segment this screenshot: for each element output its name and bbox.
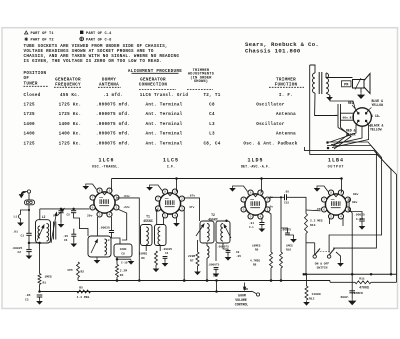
- svg-text:500M: 500M: [238, 294, 246, 298]
- box bottom node: [116, 257, 118, 259]
- svg-text:R12: R12: [309, 298, 315, 301]
- svg-text:4.7MEG: 4.7MEG: [250, 260, 260, 263]
- svg-text:R10: R10: [310, 224, 316, 227]
- svg-text:1725 Kc.: 1725 Kc.: [59, 112, 82, 117]
- svg-text:1725 Kc.: 1725 Kc.: [59, 141, 82, 146]
- wire T2 right box bottom: [215, 243, 217, 261]
- T2 trimmer arrows: [196, 224, 204, 236]
- R6 resistor: [155, 251, 158, 265]
- tube socket 1LC5: [159, 193, 180, 214]
- svg-text:15MEG: 15MEG: [139, 253, 148, 256]
- socket leads to junction: [330, 125, 356, 142]
- svg-text:CONNECTION: CONNECTION: [139, 82, 168, 87]
- antenna terminal: [27, 190, 30, 193]
- svg-text:DET.-AVC.-A.F.: DET.-AVC.-A.F.: [241, 165, 270, 169]
- 90v.B box: [341, 113, 354, 120]
- svg-text:C8, C4: C8, C4: [203, 141, 220, 146]
- C-12 cap on pin4: [261, 218, 263, 223]
- svg-text:1: 1: [174, 190, 176, 194]
- svg-text:3: 3: [181, 207, 183, 211]
- tube grid ground: [317, 186, 328, 192]
- grid line: [40, 208, 90, 210]
- svg-text:455KC: 455KC: [143, 219, 153, 223]
- svg-text:FUNCTION: FUNCTION: [275, 82, 298, 87]
- wire bundle w4: [310, 155, 397, 283]
- svg-text:1725: 1725: [24, 112, 36, 117]
- R1 resistor: [39, 243, 41, 274]
- 1LC5 pin4 ground: [176, 217, 178, 222]
- transformer left bottom lead: [315, 93, 337, 116]
- pin3 wire down: [351, 211, 353, 274]
- svg-text:10MEG: 10MEG: [252, 245, 261, 248]
- svg-text:L2: L2: [42, 215, 46, 219]
- svg-text:2.2M: 2.2M: [120, 270, 127, 273]
- svg-text:R1: R1: [43, 282, 47, 285]
- svg-text:2: 2: [266, 198, 268, 202]
- switch to ground: [333, 248, 340, 261]
- svg-text:7: 7: [92, 196, 94, 200]
- C3 capacitor: [38, 290, 41, 293]
- wire down from jack: [28, 205, 30, 233]
- T2 winding boxes: [200, 221, 214, 243]
- svg-text:Antenna: Antenna: [276, 132, 296, 137]
- svg-text:90v: 90v: [352, 201, 358, 204]
- svg-text:5: 5: [164, 214, 166, 218]
- svg-text:6: 6: [323, 208, 325, 212]
- svg-text:R8: R8: [253, 264, 257, 267]
- svg-text:Oscillator: Oscillator: [256, 103, 285, 108]
- svg-text:Chassis 101.800: Chassis 101.800: [245, 47, 301, 54]
- svg-text:2: 2: [181, 197, 183, 201]
- tube socket 1LC6: [94, 192, 115, 213]
- legend symbol square: part of C-4: [80, 31, 83, 34]
- .05MFD 600V cap: [351, 274, 353, 292]
- transformer right bottom ground: [326, 93, 330, 95]
- svg-text:Ant. Terminal: Ant. Terminal: [145, 112, 182, 117]
- svg-text:C4: C4: [53, 215, 57, 218]
- svg-text:4: 4: [260, 215, 262, 219]
- svg-text:160Ω: 160Ω: [120, 248, 127, 251]
- svg-text:.000075 mfd.: .000075 mfd.: [96, 132, 130, 137]
- svg-text:4: 4: [174, 214, 176, 218]
- svg-text:80v: 80v: [353, 193, 359, 196]
- svg-text:L3: L3: [209, 132, 215, 137]
- svg-text:.01: .01: [249, 222, 254, 225]
- svg-text:TUNER: TUNER: [24, 81, 38, 86]
- resistor R2: [96, 215, 98, 217]
- svg-text:C4: C4: [165, 252, 169, 255]
- svg-text:1MEG: 1MEG: [45, 276, 52, 279]
- svg-text:OSC.-TRANSL.: OSC.-TRANSL.: [92, 165, 120, 169]
- svg-text:.000075: .000075: [208, 264, 220, 267]
- svg-text:4: 4: [109, 213, 111, 217]
- svg-text:6: 6: [92, 206, 94, 210]
- svg-text:.05MFD: .05MFD: [352, 292, 363, 295]
- svg-text:Oscillator: Oscillator: [256, 122, 285, 127]
- wire bundle w1: [327, 142, 377, 248]
- svg-text:1LB4: 1LB4: [328, 158, 344, 164]
- .05 coupling cap line: [268, 197, 284, 198]
- svg-text:YELLOW: YELLOW: [370, 128, 382, 132]
- pin5 wire into L3: [96, 217, 98, 236]
- svg-text:T1: T1: [146, 215, 150, 219]
- svg-text:1725: 1725: [24, 103, 36, 108]
- svg-text:1LD5: 1LD5: [247, 158, 263, 164]
- svg-text:IS GIVEN, THE VOLTAGE IS ZERO: IS GIVEN, THE VOLTAGE IS ZERO OR TOO LOW…: [24, 59, 163, 64]
- svg-text:FREQUENCY: FREQUENCY: [55, 82, 81, 87]
- svg-text:PART OF C-8: PART OF C-8: [86, 39, 112, 43]
- R5 resistor on bus B: [77, 290, 91, 293]
- svg-text:.00025: .00025: [162, 248, 172, 251]
- T1 bottom leads: [145, 246, 147, 252]
- svg-text:C8: C8: [121, 253, 125, 256]
- svg-text:1LC5: 1LC5: [163, 158, 179, 164]
- speaker: [353, 80, 365, 89]
- svg-text:T2: T2: [211, 213, 215, 217]
- svg-text:1LC6 Transl. Grid: 1LC6 Transl. Grid: [140, 93, 189, 98]
- svg-text:4700Ω: 4700Ω: [359, 286, 369, 290]
- svg-text:YELLOW: YELLOW: [372, 103, 384, 107]
- transformer right top lead to speaker: [326, 73, 353, 78]
- capacitor C6: [73, 229, 75, 234]
- svg-text:.000075 mfd.: .000075 mfd.: [96, 122, 130, 127]
- riser 1LC5 pin1: [176, 179, 178, 192]
- L3 oscillator coil box: [88, 236, 111, 257]
- svg-text:Ant. Terminal: Ant. Terminal: [145, 141, 182, 146]
- svg-text:R6: R6: [141, 257, 145, 260]
- R12 1400 ohm: [306, 274, 308, 286]
- svg-text:.05: .05: [284, 191, 289, 194]
- svg-text:C6: C6: [64, 239, 68, 242]
- power cord pair: [337, 104, 339, 128]
- svg-text:C3: C3: [25, 299, 29, 302]
- svg-text:A 1A-: A 1A-: [371, 114, 381, 118]
- ground under L3: [96, 257, 98, 259]
- volume control wiper: [244, 283, 246, 291]
- 1LC5 pin5 wire: [163, 217, 165, 225]
- svg-text:PM: PM: [344, 84, 348, 88]
- svg-text:6v: 6v: [270, 206, 274, 209]
- svg-text:.05: .05: [63, 235, 68, 238]
- legend symbol circle-plus: part of C-8: [80, 37, 84, 41]
- svg-text:1725: 1725: [24, 141, 36, 146]
- svg-text:Closed: Closed: [24, 93, 41, 98]
- svg-text:ON & OFF: ON & OFF: [315, 263, 330, 266]
- svg-text:R10: R10: [286, 249, 291, 252]
- svg-text:4: 4: [340, 215, 342, 219]
- svg-text:Antenna: Antenna: [276, 112, 296, 117]
- svg-text:1400 Kc.: 1400 Kc.: [59, 132, 82, 137]
- tube grid ground: [233, 186, 248, 192]
- svg-text:8: 8: [250, 191, 252, 195]
- legend symbol star: part of T2: [24, 37, 28, 41]
- svg-text:.00025: .00025: [99, 227, 110, 230]
- svg-text:1400 Kc.: 1400 Kc.: [59, 122, 82, 127]
- pot terminal circle: [253, 292, 257, 294]
- svg-text:47v: 47v: [189, 206, 195, 209]
- svg-text:C8: C8: [209, 103, 215, 108]
- capacitor C1: [26, 232, 31, 234]
- 1LC5 pin3 long wire to bus: [183, 210, 185, 281]
- on-off switch: [313, 255, 316, 258]
- resistor R4: [116, 259, 118, 264]
- svg-text:.000075 mfd.: .000075 mfd.: [96, 103, 130, 108]
- svg-text:.00075: .00075: [281, 229, 291, 232]
- svg-text:C-10: C-10: [121, 262, 128, 265]
- svg-text:I.F.: I.F.: [167, 165, 175, 169]
- svg-text:600V.: 600V.: [341, 296, 350, 299]
- padder box 160ohm: [114, 244, 132, 257]
- svg-text:1: 1: [109, 189, 111, 193]
- svg-text:.00025: .00025: [12, 247, 23, 250]
- bus B: [40, 291, 253, 293]
- svg-text:PART OF T1: PART OF T1: [31, 32, 55, 36]
- trimmer C4: [58, 210, 63, 212]
- tube grid ground: [86, 184, 97, 190]
- svg-text:Ant. Terminal: Ant. Terminal: [145, 122, 182, 127]
- PM box: [342, 81, 352, 87]
- svg-text:455 Kc.: 455 Kc.: [60, 93, 80, 98]
- riser 1LC6 pin1: [111, 179, 113, 191]
- svg-text:C1: C1: [21, 235, 25, 238]
- svg-text:.05: .05: [25, 294, 31, 297]
- svg-text:SHOWN): SHOWN): [194, 79, 208, 84]
- svg-text:8: 8: [99, 189, 101, 193]
- svg-text:3: 3: [115, 206, 117, 210]
- svg-text:.000075 mfd.: .000075 mfd.: [96, 141, 130, 146]
- power socket: [353, 108, 371, 126]
- svg-text:C-L: C-L: [249, 226, 254, 229]
- svg-text:.01: .01: [13, 231, 19, 234]
- svg-text:.05: .05: [236, 255, 241, 258]
- antenna jack box: [28, 193, 30, 200]
- svg-text:7: 7: [323, 198, 325, 202]
- bus A right part: [304, 273, 397, 275]
- svg-text:8: 8: [164, 190, 166, 194]
- trimmer C8 ground: [190, 238, 192, 240]
- svg-text:R4: R4: [120, 274, 124, 277]
- T1 winding boxes: [141, 225, 153, 246]
- svg-text:1LC6: 1LC6: [98, 158, 114, 164]
- svg-text:Ant. Terminal: Ant. Terminal: [145, 103, 182, 108]
- svg-text:20v: 20v: [87, 215, 93, 218]
- grounds under T1: [155, 265, 157, 267]
- transformer top lead: [310, 65, 315, 73]
- svg-text:.1 mfd.: .1 mfd.: [103, 93, 123, 98]
- svg-text:.67v: .67v: [188, 195, 195, 198]
- svg-text:1400Ω: 1400Ω: [312, 293, 321, 296]
- bus A left part: [78, 280, 330, 282]
- svg-text:Osc. & Ant. Padback: Osc. & Ant. Padback: [243, 141, 297, 146]
- svg-text:C2: C2: [18, 251, 22, 254]
- B+ bus: [112, 178, 342, 180]
- wire to switch node: [305, 234, 307, 275]
- junction dots on bus A: [116, 279, 119, 282]
- svg-text:TRD: TRD: [243, 288, 248, 291]
- L2 tuning arrow: [37, 225, 44, 241]
- svg-text:8: 8: [330, 191, 332, 195]
- svg-text:220M: 220M: [188, 255, 195, 258]
- speaker ground: [360, 88, 362, 93]
- svg-text:1400: 1400: [24, 122, 36, 127]
- svg-text:C4: C4: [209, 112, 215, 117]
- svg-text:1MEG: 1MEG: [286, 245, 293, 248]
- antenna coil L2 box: [36, 220, 51, 243]
- svg-text:I. F.: I. F.: [279, 93, 293, 98]
- svg-text:1.3 MEG: 1.3 MEG: [77, 296, 90, 299]
- wire bundle w2: [327, 146, 382, 253]
- svg-text:C9: C9: [236, 251, 240, 254]
- svg-text:5: 5: [330, 215, 332, 219]
- svg-text:.22v: .22v: [123, 206, 130, 209]
- svg-text:R11: R11: [359, 278, 365, 281]
- svg-text:PART OF C-4: PART OF C-4: [86, 32, 112, 36]
- tube socket 1LB4: [325, 194, 346, 215]
- trimmer C5: [71, 210, 76, 212]
- svg-text:C5: C5: [67, 214, 71, 217]
- svg-text:1725 Kc.: 1725 Kc.: [59, 103, 82, 108]
- svg-text:2.2 MEG: 2.2 MEG: [310, 220, 323, 223]
- long vertical from transformer: [309, 65, 311, 155]
- svg-text:CONTROL: CONTROL: [235, 302, 248, 306]
- riser 1LD5 pin1: [261, 179, 263, 193]
- svg-text:7: 7: [157, 197, 159, 201]
- branch to 1LB4 grid pin: [306, 209, 321, 212]
- svg-text:ANTENNA: ANTENNA: [99, 82, 119, 87]
- svg-text:PART OF T2: PART OF T2: [31, 39, 54, 43]
- svg-text:L3: L3: [209, 122, 215, 127]
- legend symbol triangle: part of T1: [25, 31, 28, 34]
- tube grid ground: [150, 185, 162, 191]
- svg-text:R7: R7: [190, 259, 194, 262]
- wire bundle w3: [305, 147, 392, 274]
- R11 line: [330, 281, 355, 283]
- 1LC5 grid lead into T1: [156, 210, 158, 225]
- 1LB4 stubs: [329, 219, 331, 225]
- output transformer: [313, 73, 316, 93]
- T2 secondary small coil: [207, 246, 209, 258]
- gang capacitor plates: [53, 222, 55, 240]
- svg-text:R5: R5: [79, 287, 83, 290]
- tube socket 1LD5: [245, 194, 266, 215]
- svg-text:3: 3: [266, 208, 268, 212]
- svg-text:1400: 1400: [24, 132, 36, 137]
- svg-text:5: 5: [250, 215, 252, 219]
- svg-text:.00025: .00025: [354, 214, 365, 217]
- svg-text:R9: R9: [255, 249, 259, 252]
- svg-text:47M: 47M: [67, 269, 73, 272]
- wire to L2: [29, 242, 40, 244]
- svg-text:5: 5: [99, 213, 101, 217]
- svg-text:Ant. Terminal: Ant. Terminal: [145, 132, 182, 137]
- wire socket to transformer: [330, 95, 356, 110]
- svg-text:.000075 mfd.: .000075 mfd.: [96, 112, 130, 117]
- svg-text:OUTPUT: OUTPUT: [328, 165, 345, 169]
- svg-text:90v.B: 90v.B: [342, 116, 351, 119]
- capacitor C2 to ground: [28, 243, 30, 249]
- svg-text:C15: C15: [284, 202, 289, 205]
- svg-text:T2, T1: T2, T1: [203, 93, 220, 98]
- svg-text:C11: C11: [213, 275, 218, 278]
- svg-text:6: 6: [243, 208, 245, 212]
- pin2 wire to T1 vertical: [116, 198, 139, 281]
- 1LC5 pin2 wire to T2: [184, 198, 200, 221]
- pin3 wire: [119, 210, 127, 241]
- svg-text:L1: L1: [14, 216, 18, 219]
- svg-text:SWITCH: SWITCH: [317, 267, 328, 270]
- bus A to bus B link: [216, 281, 218, 292]
- riser 1LB4 pin1: [341, 179, 343, 193]
- wire L2 top to grid line: [39, 209, 41, 220]
- svg-text:7: 7: [243, 198, 245, 202]
- svg-text:R2: R2: [81, 271, 85, 274]
